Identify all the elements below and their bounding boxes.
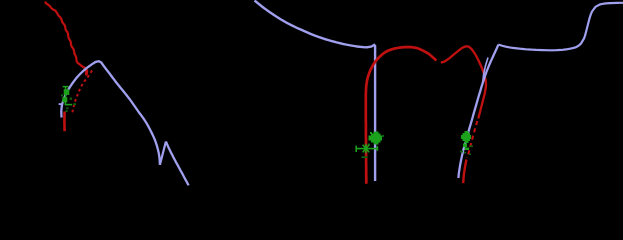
track: red second hump + descent (middle) xyxy=(441,46,486,118)
tick: small blue jog (left) xyxy=(59,103,62,105)
track: red dashed descent (right) xyxy=(467,121,477,158)
track: red knot at solid-track end (left) xyxy=(85,68,87,75)
hit marker: green blob on middle blue vertical xyxy=(368,131,384,145)
track: blue spike down-stroke (left N shape) xyxy=(166,142,189,186)
track: blue spike up-stroke (left N shape) xyxy=(160,142,166,165)
small marks xyxy=(70,98,72,100)
blob hit 1 xyxy=(64,90,69,95)
track: red dashed extrapolation (left) xyxy=(72,71,92,114)
track: blue big curve + vertical (middle) xyxy=(255,1,376,182)
track: blue diagonal (right) xyxy=(458,45,498,178)
track: blue kinked track (left, arc + descent) xyxy=(61,61,160,165)
hit marker: green cluster (right track) xyxy=(460,131,473,155)
track: red vertical + first hump (middle) xyxy=(366,47,437,184)
hits: green cluster (left track) xyxy=(61,87,76,112)
horizontal arm xyxy=(65,104,72,106)
track: red stub (left bottom) xyxy=(63,112,66,132)
hit marker: green asterisk with horizontal error bar (middle) xyxy=(356,144,377,157)
track: blue S-curve to right edge xyxy=(498,3,623,51)
blob hit 2 xyxy=(63,98,67,102)
track: red solid stub (right bottom) xyxy=(463,160,466,184)
track: red primary (top-left, wiggly) xyxy=(45,2,87,76)
track: blue secondary strand (right fork) xyxy=(483,58,488,82)
error bar vertical with cap xyxy=(63,87,69,105)
